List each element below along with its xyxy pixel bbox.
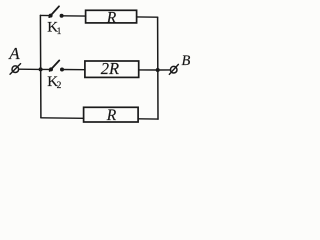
wire switch K2 to resistor R2 bbox=[62, 69, 85, 71]
resistor R3 (bottom, value R) bbox=[84, 107, 139, 122]
wire resistor R1 to right rail bbox=[137, 16, 158, 18]
svg-text:2: 2 bbox=[57, 81, 62, 91]
svg-text:1: 1 bbox=[57, 27, 62, 37]
switch K1 bbox=[49, 6, 64, 17]
label K1 bbox=[47, 20, 61, 37]
wire top-left to switch K1 bbox=[40, 14, 50, 16]
wire left rail bbox=[39, 15, 42, 117]
wire junction to switch K2 bbox=[41, 68, 51, 70]
wire resistor R3 to right rail bbox=[138, 118, 158, 120]
wire switch K1 to resistor R1 bbox=[62, 15, 86, 17]
svg-text:R: R bbox=[106, 10, 117, 27]
svg-text:B: B bbox=[182, 53, 191, 69]
switch K2 bbox=[49, 60, 64, 71]
svg-text:2R: 2R bbox=[101, 59, 119, 78]
wire right rail bbox=[157, 17, 159, 119]
wire bottom-left to resistor R3 bbox=[41, 117, 84, 120]
terminal B bbox=[169, 64, 178, 74]
resistor R2 (middle, value 2R) bbox=[85, 61, 139, 77]
wire resistor R2 to right rail bbox=[139, 69, 158, 71]
svg-text:A: A bbox=[8, 44, 20, 63]
terminal A bbox=[10, 64, 21, 75]
node junction left rail / middle branch bbox=[39, 67, 43, 71]
svg-text:R: R bbox=[106, 107, 117, 124]
resistor R1 (top, value R) bbox=[86, 10, 137, 23]
wire junction to terminal B bbox=[158, 69, 171, 71]
wire terminal A to left rail bbox=[19, 68, 41, 70]
node junction right rail / middle branch bbox=[156, 68, 160, 72]
label K2 bbox=[47, 74, 61, 91]
